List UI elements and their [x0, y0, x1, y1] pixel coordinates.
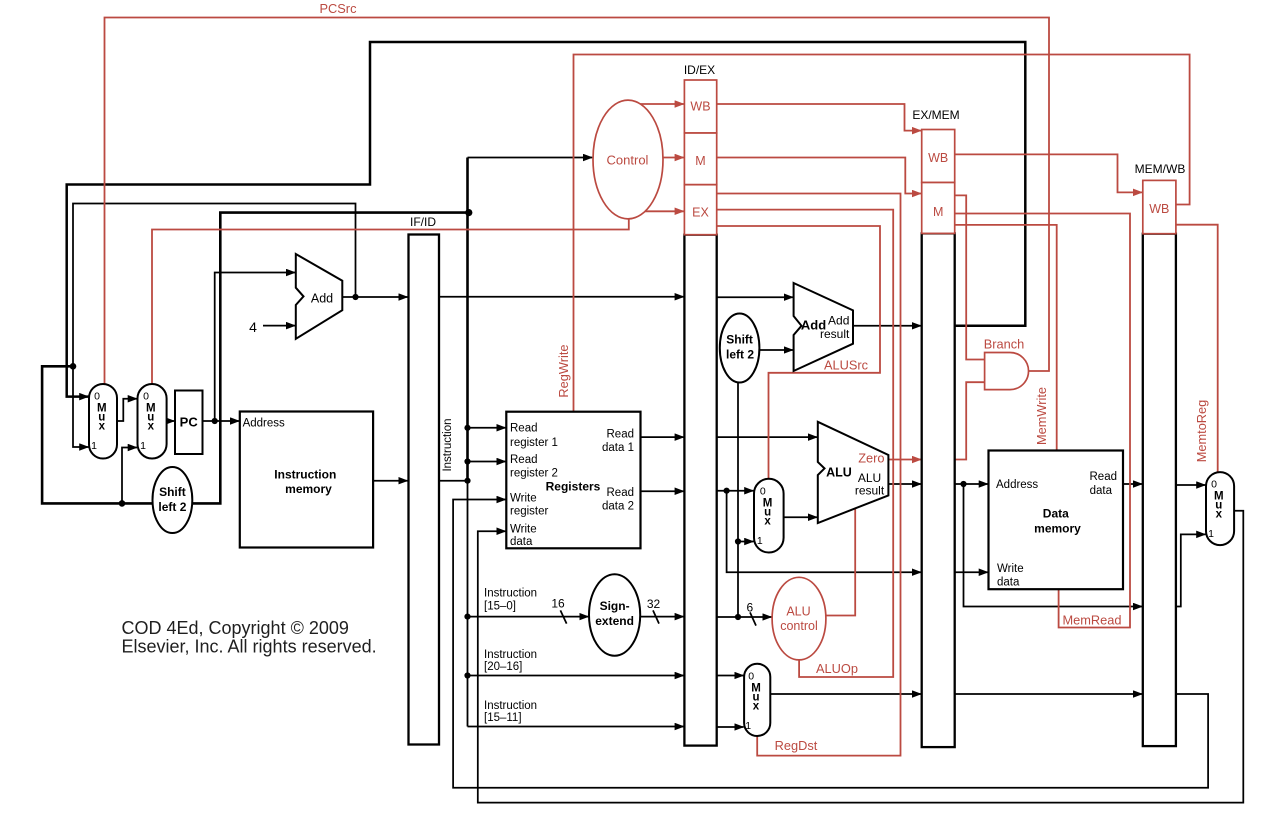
svg-text:data: data — [510, 536, 533, 548]
svg-text:register 1: register 1 — [510, 437, 558, 449]
svg-text:Shift: Shift — [159, 485, 186, 499]
svg-text:PC: PC — [180, 415, 199, 430]
svg-text:Data: Data — [1043, 507, 1069, 521]
svg-text:Instruction: Instruction — [442, 418, 454, 471]
svg-text:Write: Write — [510, 493, 537, 505]
svg-text:PCSrc: PCSrc — [320, 1, 358, 16]
svg-text:left 2: left 2 — [726, 348, 754, 362]
svg-text:1: 1 — [757, 535, 763, 547]
svg-text:Instruction: Instruction — [484, 588, 537, 600]
svg-text:M: M — [695, 154, 705, 168]
svg-text:WB: WB — [928, 151, 948, 165]
svg-text:memory: memory — [1034, 522, 1081, 536]
svg-text:M: M — [933, 205, 943, 219]
svg-text:data 1: data 1 — [602, 442, 634, 454]
svg-text:Read: Read — [510, 423, 538, 435]
svg-text:Read: Read — [510, 454, 538, 466]
svg-text:IF/ID: IF/ID — [410, 215, 436, 229]
svg-text:Write: Write — [997, 563, 1024, 575]
svg-text:memory: memory — [285, 482, 332, 496]
svg-text:ALU: ALU — [826, 466, 852, 480]
svg-text:0: 0 — [1211, 479, 1217, 491]
svg-text:Sign-: Sign- — [600, 599, 630, 613]
svg-text:1: 1 — [745, 720, 751, 732]
svg-text:EX: EX — [692, 206, 709, 220]
svg-text:MemtoReg: MemtoReg — [1194, 400, 1209, 463]
svg-text:1: 1 — [140, 440, 146, 452]
svg-text:data 2: data 2 — [602, 501, 634, 513]
svg-text:x: x — [753, 700, 760, 712]
svg-text:32: 32 — [647, 597, 661, 611]
svg-text:ALU: ALU — [786, 605, 810, 619]
svg-text:data: data — [997, 577, 1020, 589]
svg-text:Instruction: Instruction — [484, 649, 537, 661]
svg-text:Instruction: Instruction — [274, 468, 336, 482]
svg-text:[20–16]: [20–16] — [484, 661, 522, 673]
svg-text:[15–0]: [15–0] — [484, 601, 516, 613]
svg-text:COD 4Ed, Copyright © 2009: COD 4Ed, Copyright © 2009 — [122, 618, 349, 638]
svg-text:16: 16 — [551, 597, 565, 611]
svg-text:0: 0 — [748, 670, 754, 682]
svg-text:Address: Address — [243, 418, 285, 430]
svg-text:RegDst: RegDst — [775, 738, 818, 753]
svg-text:Instruction: Instruction — [484, 700, 537, 712]
svg-text:WB: WB — [690, 100, 710, 114]
svg-text:x: x — [148, 421, 155, 433]
svg-text:[15–11]: [15–11] — [484, 712, 522, 724]
svg-text:Registers: Registers — [546, 480, 601, 494]
svg-text:Control: Control — [607, 153, 649, 168]
svg-text:MEM/WB: MEM/WB — [1135, 162, 1186, 176]
svg-text:x: x — [764, 515, 771, 527]
svg-text:control: control — [780, 619, 818, 633]
svg-text:x: x — [1216, 509, 1223, 521]
svg-text:register 2: register 2 — [510, 468, 558, 480]
svg-text:EX/MEM: EX/MEM — [912, 108, 959, 122]
svg-text:result: result — [820, 327, 850, 341]
svg-text:Elsevier, Inc. All rights rese: Elsevier, Inc. All rights reserved. — [122, 637, 377, 657]
svg-text:Add: Add — [311, 292, 333, 306]
svg-text:Shift: Shift — [726, 333, 753, 347]
svg-text:0: 0 — [94, 391, 100, 403]
svg-text:1: 1 — [1208, 528, 1214, 540]
svg-text:result: result — [855, 484, 885, 498]
svg-text:Read: Read — [607, 429, 635, 441]
svg-text:ALUSrc: ALUSrc — [824, 358, 869, 373]
svg-text:Read: Read — [607, 487, 635, 499]
svg-text:register: register — [510, 506, 549, 518]
svg-text:left 2: left 2 — [158, 500, 186, 514]
svg-text:x: x — [99, 421, 106, 433]
svg-text:Address: Address — [996, 479, 1038, 491]
svg-text:ID/EX: ID/EX — [684, 63, 715, 77]
svg-text:Branch: Branch — [984, 337, 1025, 352]
svg-text:Write: Write — [510, 524, 537, 536]
svg-text:data: data — [1090, 485, 1113, 497]
svg-text:Zero: Zero — [858, 451, 884, 466]
svg-text:extend: extend — [595, 614, 634, 628]
svg-text:0: 0 — [760, 485, 766, 497]
svg-text:Add: Add — [828, 314, 849, 328]
svg-text:6: 6 — [746, 600, 753, 614]
svg-text:MemRead: MemRead — [1062, 613, 1121, 628]
svg-text:Read: Read — [1090, 471, 1118, 483]
svg-text:1: 1 — [91, 440, 97, 452]
svg-text:WB: WB — [1149, 202, 1169, 216]
svg-text:ALUOp: ALUOp — [816, 661, 858, 676]
svg-text:MemWrite: MemWrite — [1034, 387, 1049, 445]
svg-text:0: 0 — [143, 391, 149, 403]
svg-text:RegWrite: RegWrite — [556, 344, 571, 397]
svg-text:4: 4 — [249, 319, 257, 335]
